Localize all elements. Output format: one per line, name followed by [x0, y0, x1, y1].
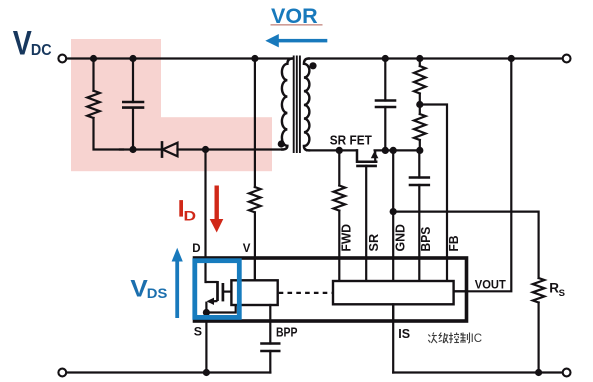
svg-text:IC: IC — [471, 333, 483, 345]
node secondary rail / FWD — [336, 147, 343, 154]
transformer primary phase dot — [278, 140, 285, 147]
svg-text:GND: GND — [393, 224, 408, 252]
resistor R-div2 — [414, 114, 426, 140]
transformer primary winding — [282, 59, 293, 150]
wire S line to bottom rail — [205, 313, 207, 373]
node top rail / divider — [416, 55, 423, 62]
svg-text:SR FET: SR FET — [330, 133, 372, 148]
primary FET gate bar — [222, 283, 225, 301]
node S to bottom rail — [203, 369, 210, 376]
wire GND branch to Rs — [393, 212, 538, 278]
primary FET source down lead — [205, 302, 207, 313]
wire secondary rail right segment — [375, 149, 420, 151]
wire BPS cap to BPS pin — [418, 185, 420, 258]
wire Rs bottom lead — [537, 303, 539, 373]
arrow ID (red, pointing down) — [210, 186, 224, 233]
label secondary control IC (Chinese glyph strokes) — [428, 333, 469, 344]
wire output cap top lead — [384, 59, 386, 101]
primary FET channel bar — [216, 281, 219, 301]
svg-text:V: V — [243, 243, 251, 255]
arrow VDS (blue, pointing up) — [172, 248, 183, 318]
capacitor C-out — [376, 101, 395, 108]
node secondary rail / output cap — [382, 147, 389, 154]
svg-text:FWD: FWD — [339, 224, 354, 252]
svg-text:D: D — [184, 209, 197, 224]
wire GND pin line — [392, 150, 394, 258]
resistor R-FWD — [334, 186, 346, 211]
wire FWD lead to FWD pin — [338, 211, 340, 258]
resistor R-clamp — [87, 91, 99, 118]
terminal output plus — [563, 55, 571, 63]
SR FET gate lead to SR pin — [365, 166, 367, 258]
transformer core lines — [294, 57, 300, 153]
svg-text:SR: SR — [366, 233, 381, 251]
highlight region upper (RCD clamp highlight) — [71, 39, 161, 118]
node top rail / output cap — [382, 55, 389, 62]
terminal VDC — [58, 55, 66, 63]
SR FET source arrow — [371, 151, 379, 159]
diode D-clamp cathode bar — [161, 142, 164, 156]
wire clamp resistor top lead — [92, 59, 94, 91]
wire BPP line — [269, 305, 271, 344]
primary FET drain jog — [206, 281, 218, 283]
node divider FB tap — [416, 101, 423, 108]
label ID — [179, 200, 183, 217]
wire bottom-left primary return rail — [66, 371, 270, 373]
VOUT internal stub — [454, 290, 467, 292]
resistor R-V (bias resistor) — [249, 187, 261, 212]
wire diode to drain node — [178, 148, 284, 150]
controller block — [333, 281, 454, 304]
GND internal stub — [392, 258, 394, 281]
FB internal stub — [446, 258, 448, 281]
primary FET source node dot — [203, 309, 210, 316]
primary FET gate lead — [223, 291, 232, 293]
svg-text:S: S — [559, 288, 565, 299]
wire FWD lead upper — [338, 150, 340, 185]
V pin internal lead — [254, 258, 256, 280]
SR FET gate bar — [358, 165, 376, 168]
wire divider top lead — [419, 59, 421, 67]
node drain (diode to primary) — [202, 146, 209, 153]
wire BPP cap bottom lead — [269, 351, 271, 373]
node top rail / clamp C — [129, 55, 136, 62]
wire V resistor to V pin — [254, 212, 256, 280]
wire clamp cap bottom lead — [132, 108, 134, 150]
highlight region lower (RCD clamp highlight) — [71, 117, 272, 171]
svg-text:IS: IS — [398, 327, 410, 341]
svg-text:FB: FB — [446, 236, 461, 252]
svg-text:D: D — [192, 243, 200, 255]
node Rs to bottom rail — [535, 369, 542, 376]
arrow VOR (blue, pointing left) — [265, 34, 327, 47]
svg-text:V: V — [130, 275, 148, 302]
label VOR underline — [271, 24, 323, 26]
node top rail / V line — [251, 55, 258, 62]
SR FET drain lead — [357, 150, 376, 161]
BPS internal stub — [418, 258, 420, 281]
resistor R-div1 — [414, 66, 426, 94]
wire secondary rail left segment — [307, 149, 356, 151]
wire BPS cap top lead — [418, 150, 420, 177]
wire clamp resistor bottom lead — [94, 118, 124, 150]
wire VOUT line from top rail — [454, 59, 512, 292]
transformer secondary winding — [304, 59, 310, 151]
svg-text:S: S — [194, 325, 202, 339]
wire bottom-right secondary return rail — [393, 371, 563, 373]
svg-text:V: V — [13, 24, 32, 62]
node top rail / VOUT line — [508, 55, 515, 62]
wire divider middle — [419, 94, 421, 115]
primary FET source path — [209, 300, 218, 303]
IC box (secondary control IC) — [195, 258, 467, 321]
capacitor C-BPP — [262, 344, 280, 352]
svg-text:DC: DC — [31, 42, 52, 59]
primary FET source to driver — [206, 305, 235, 313]
svg-text:BPS: BPS — [418, 226, 433, 251]
resistor Rs — [533, 278, 545, 303]
capacitor C-BPS — [410, 178, 429, 186]
wire FB tap — [420, 105, 447, 259]
wire clamp bottom rail to diode — [120, 148, 161, 150]
wire divider bottom lead — [419, 140, 421, 150]
driver block — [231, 280, 277, 305]
node secondary rail / GND — [390, 147, 397, 154]
wire IS line — [392, 304, 394, 372]
svg-text:DS: DS — [147, 286, 168, 301]
IS internal stub — [392, 304, 394, 321]
wire drain vertical (primary switch drain) — [204, 150, 206, 283]
node GND branch — [390, 208, 397, 215]
terminal primary return — [58, 369, 66, 377]
SR internal stub — [365, 258, 367, 281]
diode D-clamp triangle — [163, 143, 178, 157]
SR FET source lead — [374, 152, 376, 162]
node top rail / clamp R — [90, 55, 97, 62]
wire top rail secondary to output — [309, 57, 563, 59]
wire V-pin line from top rail — [254, 59, 256, 188]
svg-text:VOUT: VOUT — [475, 277, 507, 291]
terminal output return — [563, 369, 571, 377]
VDS highlight square — [195, 261, 240, 318]
svg-text:BPP: BPP — [276, 325, 298, 340]
node secondary rail / divider-BPS — [416, 147, 423, 154]
wire top rail VDC to primary — [66, 57, 292, 59]
primary FET source arrow — [207, 298, 214, 305]
node clamp C bottom — [129, 146, 136, 153]
transformer secondary phase dot — [309, 62, 316, 69]
wire clamp cap top lead — [132, 59, 134, 103]
capacitor C-clamp — [123, 102, 143, 108]
FWD internal stub — [338, 258, 340, 281]
dashed link driver to controller — [279, 292, 333, 294]
wire output cap bottom lead — [384, 107, 386, 150]
